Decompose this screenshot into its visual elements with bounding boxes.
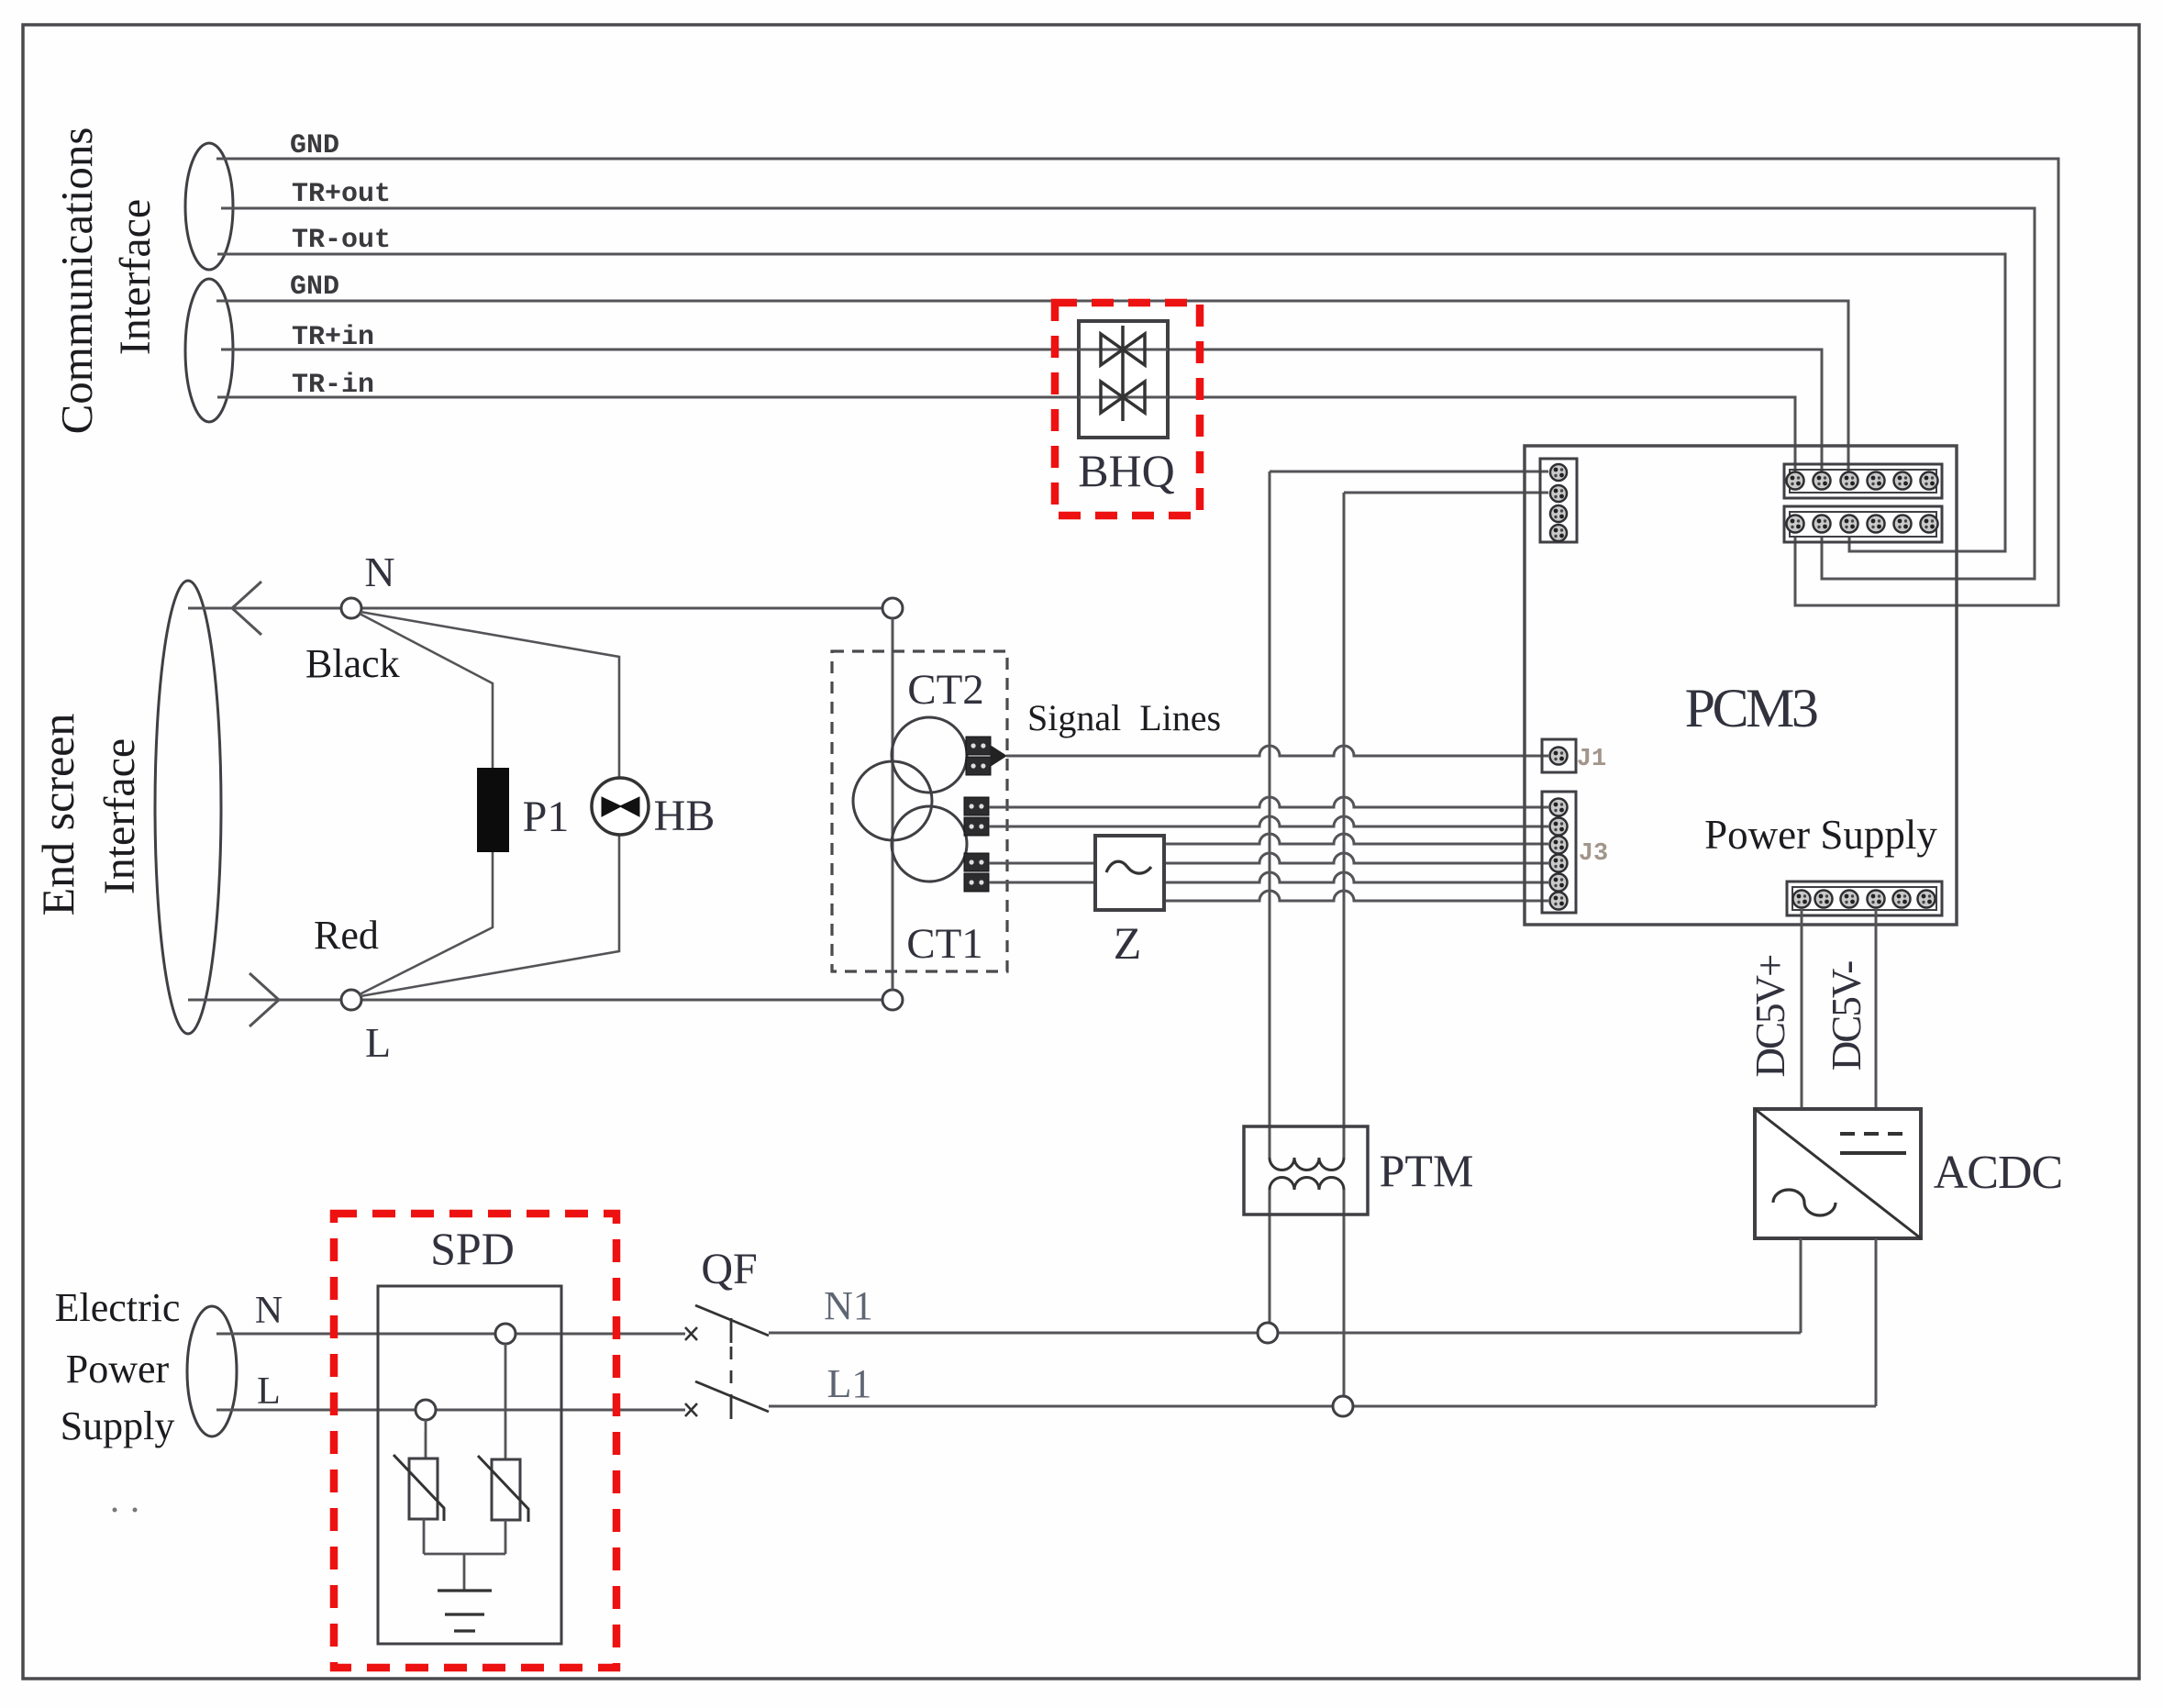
power cable ellipse <box>187 1306 237 1436</box>
svg-text:CT1: CT1 <box>906 920 983 968</box>
ground symbol <box>438 1589 492 1592</box>
CT2 terminal block <box>966 737 991 755</box>
svg-text:L: L <box>365 1019 391 1066</box>
svg-text:J1: J1 <box>1577 746 1606 773</box>
wire TR+in: through BHQ, down into upper terminal pin 2 <box>221 349 1822 472</box>
node N <box>341 598 361 618</box>
PCM3 power terminal row <box>1787 882 1942 915</box>
wire DC5V- <box>1875 908 1878 1109</box>
CT dashed box <box>832 651 1007 971</box>
wire signal line 5 through Z to J3 <box>989 872 1548 882</box>
node L1/PTM junction <box>1333 1396 1353 1416</box>
end screen cable ellipse <box>155 581 221 1034</box>
svg-text:Power Supply: Power Supply <box>1704 812 1937 858</box>
wire bottom (L) with arrow toward L node <box>188 999 882 1002</box>
BHQ component box <box>1079 321 1168 438</box>
svg-text:Black: Black <box>305 641 400 686</box>
PCM3 upper terminal row <box>1784 464 1942 498</box>
svg-text:Red: Red <box>314 913 379 958</box>
wire varistors to ground bus <box>423 1519 426 1554</box>
svg-text:TR-out: TR-out <box>292 225 391 256</box>
svg-text:Supply: Supply <box>61 1403 175 1448</box>
svg-text:N1: N1 <box>824 1283 873 1328</box>
wire signal line 4 through Z to J3 <box>989 853 1548 863</box>
wire J1 signal line <box>1006 746 1548 756</box>
PTM secondary winding <box>1270 1178 1344 1191</box>
BHQ TVS element 1 (on TR+in) <box>1079 349 1168 351</box>
wire GND in: to x=2015 then down into PCM3 upper terminal pin 3 <box>216 301 1848 472</box>
wire signal line 1 to J3 <box>989 797 1548 807</box>
wire signal line 3 (from Z) to J3 <box>1164 834 1548 844</box>
wire N to P1 <box>360 614 493 769</box>
svg-text:BHQ: BHQ <box>1078 445 1175 496</box>
svg-text:CT2: CT2 <box>907 666 984 714</box>
wire L1 <box>769 1405 1876 1408</box>
breaker QF pole N <box>685 1327 697 1340</box>
node bottom-right of end screen loop <box>882 990 903 1010</box>
svg-text:DC5V+: DC5V+ <box>1747 955 1793 1078</box>
wire N to QF <box>216 1333 685 1336</box>
CT2 output arrow <box>991 746 1006 766</box>
filter Z <box>1095 836 1164 910</box>
lamp HB <box>592 778 649 835</box>
svg-text:TR+out: TR+out <box>292 179 391 210</box>
svg-text:QF: QF <box>701 1245 757 1293</box>
converter ACDC box <box>1755 1109 1921 1238</box>
svg-text:End screen: End screen <box>32 714 83 916</box>
varistor RV2 <box>492 1459 520 1520</box>
SPD red dashed box <box>334 1214 616 1668</box>
cable sheath ellipse (in) <box>185 279 233 422</box>
wire N node to varistor 2 <box>505 1344 507 1458</box>
svg-text:Signal Lines: Signal Lines <box>1027 697 1221 738</box>
wire ACDC out left (to N1) <box>1800 1238 1802 1333</box>
transformer PTM box <box>1244 1126 1368 1214</box>
SPD inner box <box>378 1286 561 1644</box>
node L <box>341 990 361 1010</box>
svg-text:J3: J3 <box>1579 840 1608 868</box>
ACDC DC symbol <box>1840 1132 1855 1136</box>
PTM primary winding <box>1270 1158 1344 1170</box>
wire TR+out: to right, down, to lower terminal pin 2 <box>221 208 2035 579</box>
svg-text:L: L <box>257 1370 281 1413</box>
connector J3 <box>1542 792 1576 913</box>
svg-text:Interface: Interface <box>111 199 160 356</box>
svg-text:DC5V-: DC5V- <box>1824 961 1869 1070</box>
svg-text:SPD: SPD <box>430 1223 515 1274</box>
wire ACDC out right (to L1) <box>1875 1238 1878 1406</box>
svg-text:PCM3: PCM3 <box>1685 678 1817 738</box>
wire TR-in: through BHQ, down into upper terminal pin 1 <box>217 397 1795 472</box>
CT2 transformer circle <box>892 717 967 793</box>
svg-text:GND: GND <box>290 130 339 161</box>
svg-text:L1: L1 <box>827 1361 872 1406</box>
wire L to QF <box>216 1409 685 1412</box>
BHQ TVS element 2 (on TR-in) <box>1079 396 1168 399</box>
varistor RV1 <box>409 1458 438 1519</box>
svg-text:Z: Z <box>1114 917 1142 969</box>
svg-text:Power: Power <box>66 1347 170 1392</box>
svg-text:N: N <box>364 549 394 595</box>
breaker QF mechanical link (dashed) <box>730 1347 733 1391</box>
svg-text:HB: HB <box>654 792 715 840</box>
node top-right of end screen loop <box>882 598 903 618</box>
svg-text:PTM: PTM <box>1380 1145 1474 1196</box>
CT coupling circle <box>853 761 932 840</box>
svg-text:Interface: Interface <box>95 738 144 895</box>
wire GND out: ellipse to right side, down, returns to PCM3 lower terminal pin 1 <box>216 159 2058 605</box>
wire TR-out: to right, down, to lower terminal pin 3 <box>217 254 2005 551</box>
cable sheath ellipse (out) <box>185 143 233 270</box>
node SPD on L line <box>416 1400 436 1420</box>
svg-text:P1: P1 <box>523 793 570 841</box>
wire PTM left vertical (to 4-pin connector / N1 node) <box>1270 471 1548 473</box>
wire signal line 2 to J3 <box>989 816 1548 826</box>
svg-text:Communications: Communications <box>51 128 102 435</box>
wire PTM right vertical (to 4-pin connector / L1 node) <box>1344 492 1548 494</box>
wire L node to varistor 1 <box>425 1420 427 1458</box>
svg-text:GND: GND <box>290 272 339 303</box>
ACDC AC sine <box>1773 1190 1836 1215</box>
wire DC5V+ <box>1801 908 1803 1109</box>
CT1 transformer circle <box>892 806 967 882</box>
stray dots <box>113 1508 117 1513</box>
ACDC diagonal <box>1755 1109 1921 1238</box>
wire N to HB <box>360 612 619 779</box>
wire N1 <box>769 1332 1801 1335</box>
svg-text:N: N <box>255 1290 283 1332</box>
CT1 terminal block <box>964 853 989 871</box>
BHQ red dashed box <box>1055 303 1200 516</box>
breaker QF pole L <box>685 1403 697 1416</box>
PCM3 lower terminal row <box>1784 506 1942 542</box>
resistor P1 (black body) <box>477 768 509 852</box>
svg-text:Electric: Electric <box>55 1285 181 1330</box>
svg-text:ACDC: ACDC <box>1934 1147 2062 1199</box>
PCM3 4-pin connector <box>1540 459 1577 542</box>
connector J1 <box>1542 739 1576 772</box>
node N1/PTM junction <box>1258 1323 1278 1343</box>
wire L to HB <box>360 834 619 996</box>
wire vertical through CTs <box>892 618 894 990</box>
wire top (N) with arrow into cable <box>188 607 882 610</box>
node SPD on N line <box>495 1324 516 1344</box>
module PCM3 box <box>1525 446 1957 925</box>
wire signal line 6 (from Z) to J3 <box>1164 891 1548 901</box>
wire L to P1 <box>360 851 493 994</box>
CT middle terminal block <box>964 797 989 815</box>
